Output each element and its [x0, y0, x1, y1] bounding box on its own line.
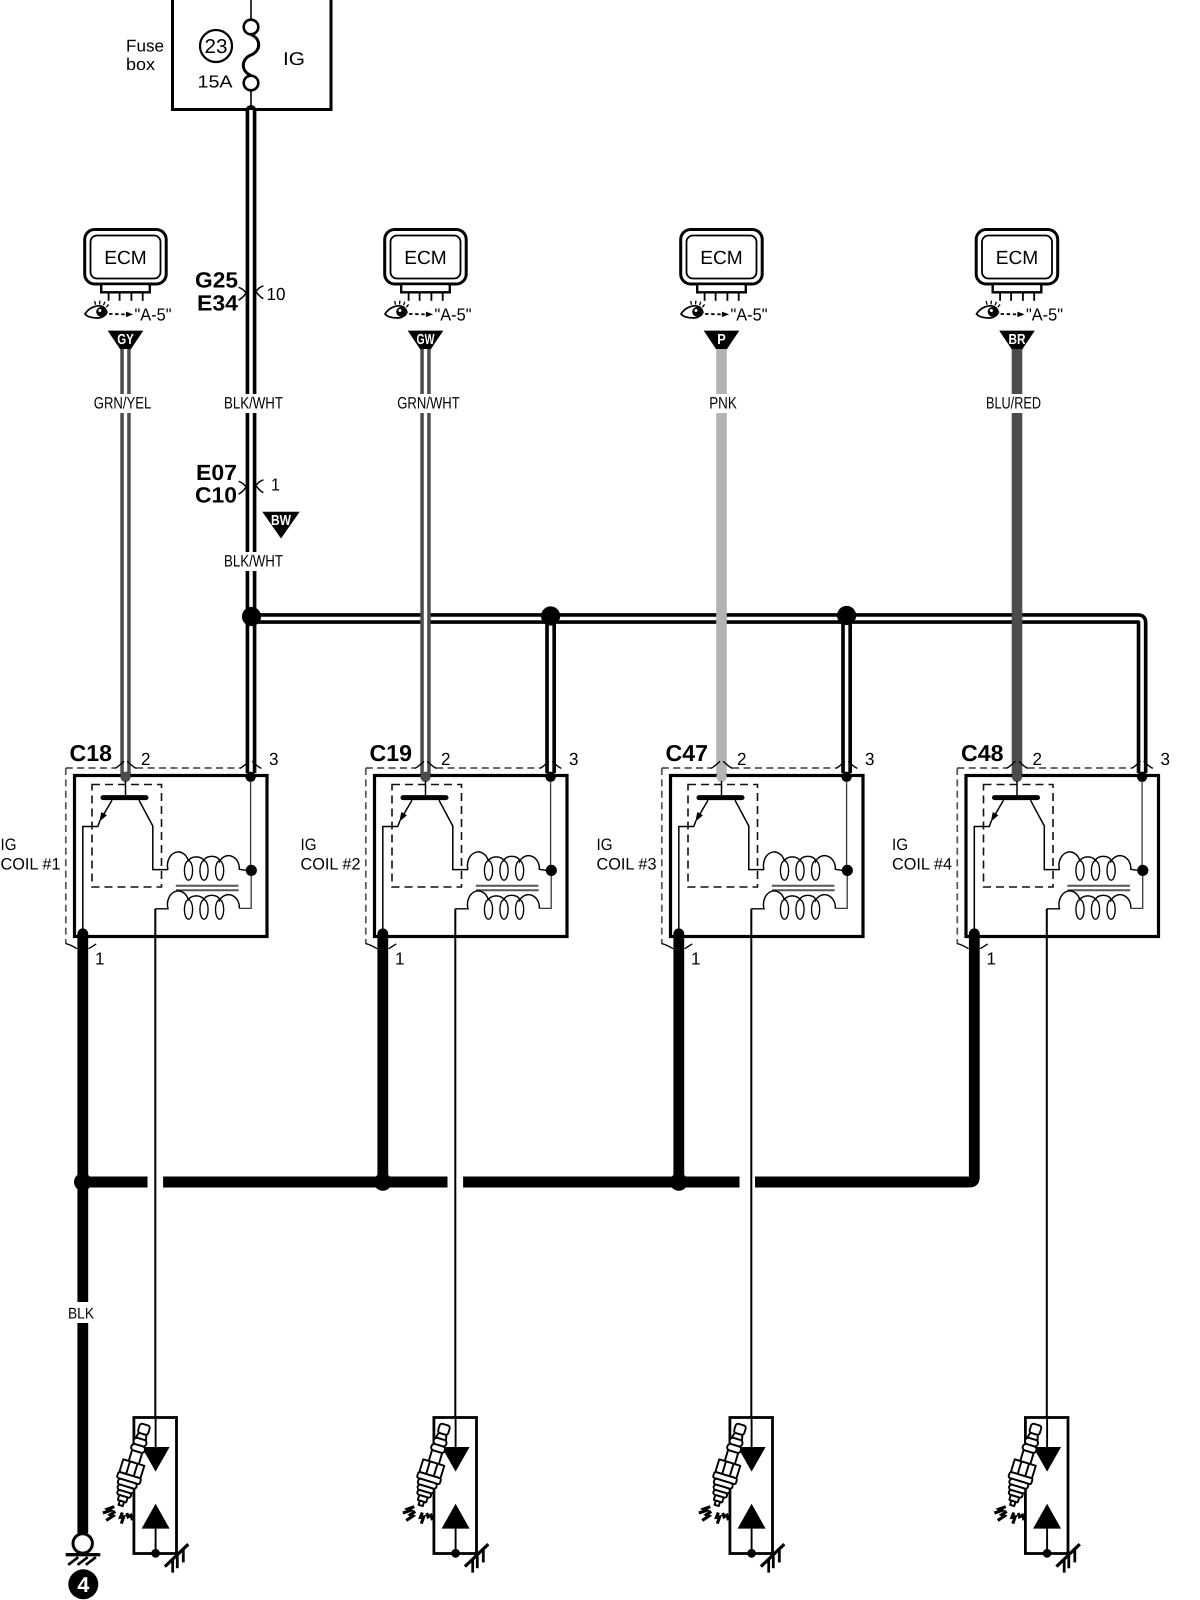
svg-text:1: 1 — [395, 949, 405, 969]
junction dot windings-pin3 — [546, 865, 557, 876]
svg-text:IG: IG — [1, 836, 17, 854]
wire white centers (double-line style) — [251, 110, 1142, 773]
svg-text:GRN/YEL: GRN/YEL — [94, 395, 152, 413]
svg-text:3: 3 — [269, 749, 279, 769]
svg-text:C18: C18 — [70, 740, 113, 766]
label BLU/RED — [982, 394, 1045, 413]
label GRN/YEL — [90, 394, 155, 413]
spark plug box cyl 1 — [134, 1418, 177, 1554]
wire color triangle BR (ECM U4) — [999, 331, 1035, 358]
label BLK/WHT (upper) — [220, 394, 287, 413]
svg-text:"A-5": "A-5" — [731, 305, 768, 325]
wire color triangle GW (ECM U2) — [408, 331, 444, 358]
spark gap electrode (down triangle) — [142, 1447, 170, 1472]
ECM U1 — [85, 230, 167, 301]
svg-text:COIL #3: COIL #3 — [597, 856, 657, 874]
ground (chassis) at spark plug 2 — [465, 1544, 488, 1572]
ground (chassis) at spark plug 3 — [761, 1544, 784, 1572]
transformer core — [476, 886, 539, 890]
transistor Q4 — [974, 781, 1059, 934]
ECM U3 — [681, 230, 763, 301]
junction dot windings-pin3 — [842, 865, 853, 876]
label IG COIL #3 — [597, 836, 657, 874]
svg-text:PNK: PNK — [709, 395, 737, 413]
eye icon see "A-5" (ECM U3) — [681, 301, 768, 325]
junction dot bus-coil1 pin1 — [74, 1173, 92, 1191]
label IG COIL #2 — [301, 836, 361, 874]
svg-text:IG: IG — [892, 836, 908, 854]
wire pin3 node internal — [1131, 781, 1143, 908]
spark marks 1 — [103, 1507, 133, 1524]
svg-text:BLK/WHT: BLK/WHT — [224, 395, 283, 413]
spark gap electrode (up triangle) — [1033, 1504, 1061, 1529]
label PNK — [706, 394, 741, 413]
svg-text:4: 4 — [77, 1573, 89, 1597]
wire pin3 node internal — [539, 781, 551, 908]
secondary winding L3b — [751, 891, 835, 919]
spark gap electrode (down triangle) — [1033, 1447, 1061, 1472]
svg-text:BR: BR — [1009, 332, 1026, 348]
pin 2 wire end cap — [420, 772, 430, 782]
junction dot windings-pin3 — [246, 865, 257, 876]
spark gap electrode (up triangle) — [442, 1504, 470, 1529]
ignition coil connector C47 dashed outline — [662, 761, 858, 949]
svg-text:C47: C47 — [666, 740, 709, 766]
wire BLK pin 1 of C47 — [673, 928, 684, 1182]
svg-text:BW: BW — [271, 513, 291, 529]
ECM U2 — [385, 230, 467, 301]
svg-text:ECM: ECM — [104, 248, 147, 269]
primary winding L3a — [763, 852, 842, 880]
junction dot bus-coil2 pin1 — [374, 1173, 392, 1191]
svg-text:E07: E07 — [196, 460, 237, 485]
ignition coil box IG COIL #3 — [671, 776, 864, 937]
wire HV inside plug box — [1046, 1418, 1048, 1449]
label IG COIL #4 — [892, 836, 952, 874]
svg-text:"A-5": "A-5" — [435, 305, 472, 325]
svg-text:COIL #2: COIL #2 — [301, 856, 361, 874]
svg-text:10: 10 — [267, 284, 286, 304]
transistor Q3 — [679, 781, 764, 934]
wire branch to coil3 pin3 — [841, 619, 852, 774]
svg-text:1: 1 — [271, 475, 280, 495]
svg-text:E34: E34 — [197, 291, 239, 316]
spark plug 3 — [705, 1421, 752, 1509]
label IG COIL #1 — [1, 836, 61, 874]
spark plug box cyl 3 — [730, 1418, 773, 1554]
pin 2 wire end cap — [716, 772, 726, 782]
junction dot plug ground — [451, 1549, 460, 1558]
ignition coil connector C48 dashed outline — [957, 761, 1153, 949]
wire BLK ground bus — [83, 1177, 968, 1188]
eye icon see "A-5" (ECM U2) — [385, 301, 472, 325]
junction dot bus-coil2 — [541, 606, 560, 625]
secondary winding L2b — [455, 891, 539, 919]
label BLK — [65, 1302, 99, 1323]
ground (chassis) at spark plug 1 — [165, 1544, 188, 1572]
svg-text:C10: C10 — [195, 483, 237, 508]
spark marks 4 — [994, 1507, 1024, 1524]
svg-text:C48: C48 — [961, 740, 1004, 766]
wire color triangle GY (ECM U1) — [108, 331, 144, 358]
svg-text:IG: IG — [597, 836, 613, 854]
svg-text:1: 1 — [987, 949, 997, 969]
secondary winding L1b — [155, 891, 239, 919]
eye icon see "A-5" (ECM U4) — [977, 301, 1064, 325]
svg-text:BLK: BLK — [68, 1306, 95, 1323]
spark plug box cyl 2 — [434, 1418, 477, 1554]
svg-text:"A-5": "A-5" — [1026, 305, 1063, 325]
spark plug box cyl 4 — [1025, 1418, 1068, 1554]
spark gap electrode (down triangle) — [738, 1447, 766, 1472]
pin 2 wire end cap — [120, 772, 130, 782]
connector code triangle BW — [262, 512, 299, 539]
svg-text:IG: IG — [283, 48, 305, 69]
transistor Q3 dashed box — [688, 785, 758, 888]
wire HV output to spark plug #1 — [154, 909, 156, 1418]
svg-text:ECM: ECM — [700, 248, 743, 269]
wire HV output to spark plug #4 — [1046, 909, 1048, 1418]
pin 3 wire end cap — [1137, 772, 1147, 782]
label GRN/WHT — [394, 394, 464, 413]
pin 3 wire end cap — [841, 772, 851, 782]
svg-text:3: 3 — [865, 749, 875, 769]
junction dot windings-pin3 — [1137, 865, 1148, 876]
spark gap electrode (down triangle) — [442, 1447, 470, 1472]
wire GRN/YEL (coil1 pin2) — [120, 349, 130, 774]
svg-text:1: 1 — [95, 949, 105, 969]
svg-text:P: P — [717, 332, 726, 348]
svg-text:IG: IG — [301, 836, 317, 854]
svg-text:GRN/WHT: GRN/WHT — [397, 395, 460, 413]
junction dot bus-coil3 pin1 — [670, 1173, 688, 1191]
spark plug 1 — [109, 1421, 156, 1509]
svg-text:3: 3 — [1161, 749, 1171, 769]
spark marks 3 — [699, 1507, 729, 1524]
svg-text:2: 2 — [1033, 749, 1043, 769]
transformer core — [772, 886, 835, 890]
svg-text:2: 2 — [737, 749, 747, 769]
svg-text:ECM: ECM — [996, 248, 1039, 269]
wire BLK pin 1 of C19 — [377, 928, 388, 1182]
connector G25/E34 pin 10 — [195, 268, 286, 316]
ground G (body ground) — [66, 1534, 101, 1565]
ignition coil connector C19 dashed outline — [366, 761, 562, 949]
pin 3 wire end cap — [545, 772, 555, 782]
ground (chassis) at spark plug 4 — [1056, 1544, 1079, 1572]
fuse 23 15A — [198, 0, 259, 108]
junction dot plug ground — [1043, 1549, 1052, 1558]
primary winding L4a — [1059, 852, 1138, 880]
svg-text:2: 2 — [441, 749, 451, 769]
secondary winding L4b — [1047, 891, 1131, 919]
junction dot bus-coil3 — [837, 606, 856, 625]
primary winding L1a — [167, 852, 246, 880]
transistor Q2 dashed box — [392, 785, 462, 888]
fuse box — [126, 0, 331, 110]
wire HV inside plug box — [455, 1418, 457, 1449]
ECM U4 — [976, 230, 1057, 301]
spark gap electrode (up triangle) — [142, 1504, 170, 1529]
wire GRN/WHT (coil2 pin2) — [420, 349, 430, 774]
page reference circled 4 — [68, 1569, 98, 1599]
label BLK/WHT (lower) — [220, 552, 287, 571]
transistor Q1 — [83, 781, 168, 934]
svg-text:BLU/RED: BLU/RED — [986, 395, 1041, 413]
svg-text:Fuse: Fuse — [126, 37, 164, 56]
wire electrode to ground — [1046, 1529, 1048, 1554]
svg-text:GY: GY — [117, 332, 134, 348]
spark plug 4 — [1001, 1421, 1048, 1509]
wire color triangle P (ECM U3) — [704, 331, 740, 358]
wire HV inside plug box — [155, 1418, 157, 1449]
svg-text:box: box — [126, 55, 156, 74]
wire pin3 node internal — [835, 781, 847, 908]
svg-text:15A: 15A — [198, 72, 233, 92]
wire pin3 node internal — [239, 781, 251, 908]
wire BLK pin 1 of C18 — [77, 928, 88, 1182]
wire BLU/RED (coil4 pin2) — [1012, 349, 1023, 774]
eye icon see "A-5" (ECM U1) — [85, 301, 172, 325]
wire BLK/WHT main from fuse box — [246, 105, 257, 773]
ignition coil box IG COIL #2 — [375, 776, 568, 937]
spark plug 2 — [409, 1421, 456, 1509]
transistor Q4 dashed box — [984, 785, 1054, 888]
wire electrode to ground — [751, 1529, 753, 1554]
svg-text:COIL #4: COIL #4 — [892, 856, 952, 874]
transformer core — [176, 886, 239, 890]
wire branch to coil2 pin3 — [545, 619, 556, 774]
wire BLK to ground — [77, 1182, 88, 1533]
spark gap electrode (up triangle) — [738, 1504, 766, 1529]
wire electrode to ground — [155, 1529, 157, 1554]
svg-text:G25: G25 — [195, 268, 238, 293]
junction dot plug ground — [747, 1549, 756, 1558]
wire HV output to spark plug #2 — [454, 909, 456, 1418]
svg-text:BLK/WHT: BLK/WHT — [224, 553, 283, 571]
wire BLK/WHT bus to coil4 pin3 — [251, 619, 1142, 774]
primary winding L2a — [467, 852, 546, 880]
svg-text:1: 1 — [691, 949, 701, 969]
svg-text:3: 3 — [569, 749, 579, 769]
wire electrode to ground — [455, 1529, 457, 1554]
ignition coil connector C18 dashed outline — [66, 761, 262, 949]
wire BLK pin 1 of C48 — [755, 928, 980, 1182]
svg-text:23: 23 — [205, 36, 228, 58]
transistor Q1 dashed box — [92, 785, 162, 888]
pin 2 wire end cap — [1012, 772, 1022, 782]
connector E07/C10 pin 1 — [195, 460, 280, 508]
transistor Q2 — [383, 781, 468, 934]
spark marks 2 — [403, 1507, 433, 1524]
ignition coil box IG COIL #1 — [75, 776, 268, 937]
pin 3 wire end cap — [245, 772, 255, 782]
wire HV output to spark plug #3 — [750, 909, 752, 1418]
junction dot bus-main — [242, 607, 261, 626]
svg-text:ECM: ECM — [404, 248, 447, 269]
svg-text:2: 2 — [141, 749, 151, 769]
svg-text:"A-5": "A-5" — [135, 305, 172, 325]
svg-text:COIL #1: COIL #1 — [1, 856, 61, 874]
wire HV inside plug box — [751, 1418, 753, 1449]
junction dot plug ground — [151, 1549, 160, 1558]
wire PNK (coil3 pin2) — [716, 349, 727, 774]
transformer core — [1067, 886, 1130, 890]
ignition coil box IG COIL #4 — [966, 776, 1159, 937]
svg-text:C19: C19 — [370, 740, 413, 766]
svg-text:GW: GW — [417, 332, 435, 348]
